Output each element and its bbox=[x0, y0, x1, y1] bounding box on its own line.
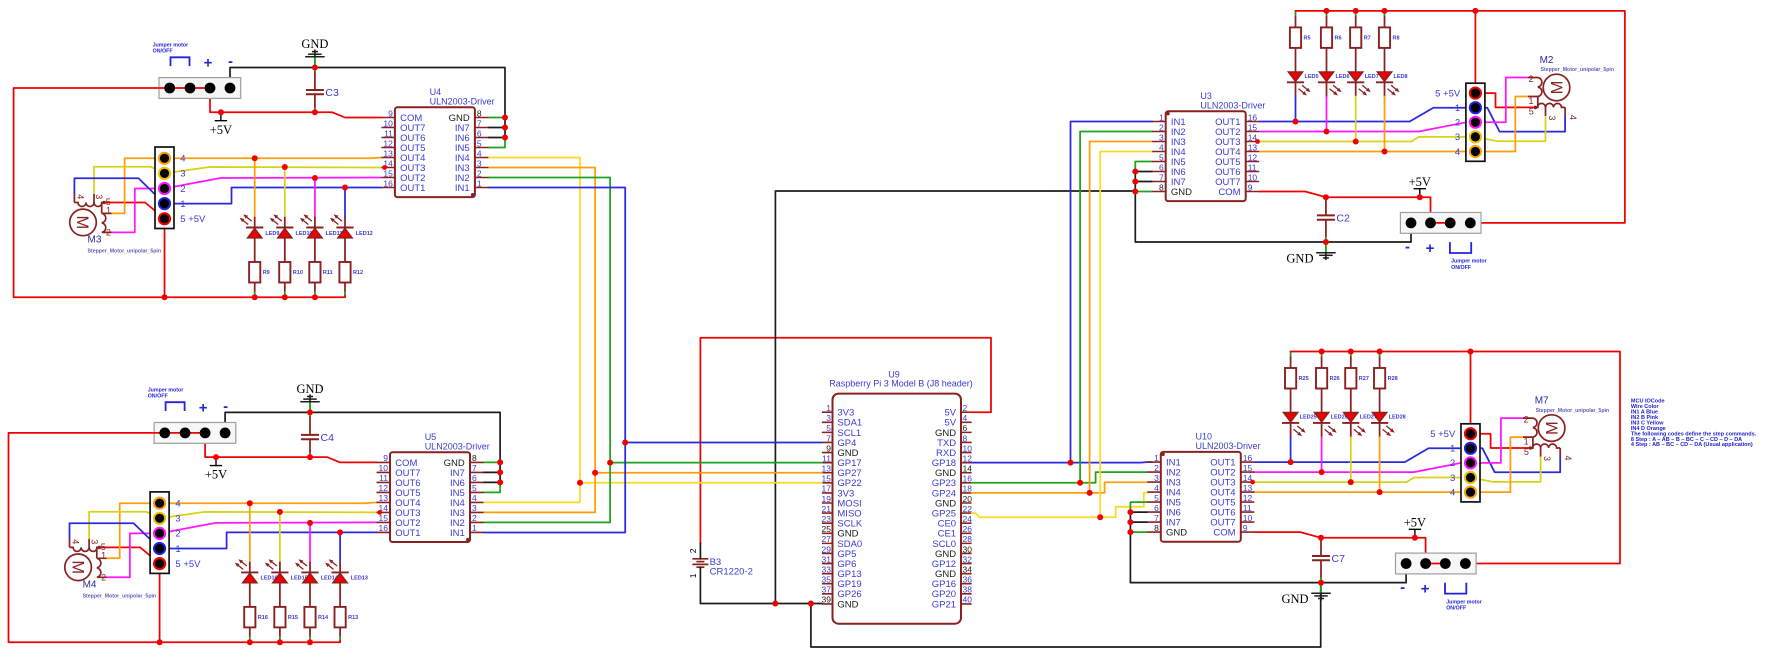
wire IN5-IN6-IN7-GND tie (green/black stubs) bbox=[1130, 502, 1147, 532]
svg-text:ULN2003-Driver: ULN2003-Driver bbox=[1200, 101, 1265, 111]
wire LED column LED12 bbox=[344, 188, 346, 298]
svg-text:LED9: LED9 bbox=[265, 231, 279, 237]
svg-text:3: 3 bbox=[1547, 115, 1557, 120]
svg-text:5 +5V: 5 +5V bbox=[1435, 88, 1461, 99]
wire battery leads (black) bbox=[700, 543, 822, 603]
wire GND jumper line (black) bbox=[230, 68, 505, 138]
svg-text:C3: C3 bbox=[325, 87, 339, 99]
jumper symbol + label bbox=[1450, 242, 1487, 271]
svg-text:ULN2003-Driver: ULN2003-Driver bbox=[425, 441, 490, 451]
resistor R25 bbox=[1285, 368, 1309, 389]
LED LED13 bbox=[325, 559, 368, 583]
svg-text:4: 4 bbox=[175, 499, 180, 510]
svg-text:5: 5 bbox=[101, 542, 106, 552]
svg-text:ON/OFF: ON/OFF bbox=[148, 394, 169, 400]
resistor R27 bbox=[1345, 368, 1369, 389]
svg-text:C7: C7 bbox=[1332, 553, 1346, 565]
wire net IN4 right (yellow) RPi.GP25-U10.IN4-U3.IN4 bbox=[972, 152, 1153, 521]
svg-text:37: 37 bbox=[822, 585, 832, 595]
wire LED column LED11 bbox=[314, 178, 316, 297]
svg-text:M: M bbox=[68, 560, 86, 574]
svg-text:+5V: +5V bbox=[210, 123, 232, 137]
svg-text:3: 3 bbox=[180, 169, 185, 180]
resistor R8 bbox=[1379, 27, 1400, 48]
svg-text:13: 13 bbox=[822, 464, 832, 474]
svg-text:24: 24 bbox=[963, 514, 973, 524]
svg-text:M4: M4 bbox=[83, 579, 97, 590]
wire motor phase A (blue) bbox=[74, 178, 381, 203]
svg-text:35: 35 bbox=[822, 575, 832, 585]
plus minus labels bbox=[1400, 579, 1430, 598]
svg-text:+: + bbox=[1426, 240, 1435, 257]
svg-text:8: 8 bbox=[472, 453, 477, 463]
jumper symbol + label bbox=[148, 387, 185, 411]
svg-text:M2: M2 bbox=[1540, 55, 1554, 66]
svg-text:10: 10 bbox=[1248, 172, 1258, 182]
LED LED6 bbox=[1318, 72, 1350, 96]
jumper symbol + label bbox=[153, 43, 190, 67]
svg-text:7: 7 bbox=[1154, 513, 1159, 523]
LED LED14 bbox=[295, 559, 339, 583]
svg-text:9: 9 bbox=[383, 453, 388, 463]
resistor R9 bbox=[249, 262, 270, 283]
svg-text:3: 3 bbox=[472, 503, 477, 513]
GND label bbox=[0, 0, 1, 1]
resistor R7 bbox=[1350, 27, 1371, 48]
svg-text:12: 12 bbox=[1243, 493, 1253, 503]
stepper motor M4 bbox=[65, 539, 156, 600]
GND label bbox=[0, 0, 1, 1]
wire motor phase C (yellow) bbox=[1259, 116, 1545, 142]
svg-text:-: - bbox=[223, 398, 228, 415]
svg-text:GP21: GP21 bbox=[932, 599, 956, 610]
4-pin jumper header bbox=[1396, 553, 1477, 574]
svg-text:4 Step : AB – BC – CD – DA (Us: 4 Step : AB – BC – CD – DA (Usual applic… bbox=[1631, 442, 1753, 448]
IC U5 ULN2003-Driver body bbox=[377, 432, 490, 542]
LED LED26 bbox=[1313, 413, 1348, 437]
svg-text:1: 1 bbox=[688, 573, 698, 578]
svg-text:13: 13 bbox=[1248, 142, 1258, 152]
wire +5V rail (red) bbox=[1296, 11, 1625, 223]
svg-text:R14: R14 bbox=[318, 615, 329, 621]
wire net IN3 left (orange) U4.IN3-U5.IN3-RPi.GP27 bbox=[483, 168, 822, 513]
svg-text:6: 6 bbox=[477, 128, 482, 138]
svg-text:3: 3 bbox=[94, 194, 104, 199]
svg-text:8: 8 bbox=[963, 433, 968, 443]
svg-text:9: 9 bbox=[1248, 182, 1253, 192]
svg-text:1: 1 bbox=[472, 523, 477, 533]
svg-text:C4: C4 bbox=[321, 432, 335, 444]
svg-text:LED28: LED28 bbox=[1389, 415, 1406, 421]
svg-text:2: 2 bbox=[106, 227, 111, 237]
LED LED28 bbox=[1371, 413, 1406, 437]
svg-text:U3: U3 bbox=[1200, 91, 1212, 101]
svg-text:M: M bbox=[73, 216, 91, 230]
svg-text:3: 3 bbox=[175, 514, 180, 525]
svg-text:4: 4 bbox=[1563, 456, 1573, 461]
svg-text:+: + bbox=[204, 55, 213, 72]
capacitor C3 bbox=[306, 87, 339, 99]
svg-text:Stepper_Motor_unipolar_5pin: Stepper_Motor_unipolar_5pin bbox=[88, 249, 162, 255]
wire LED column LED25 bbox=[1290, 352, 1292, 463]
svg-text:4: 4 bbox=[71, 539, 81, 544]
svg-text:4: 4 bbox=[1450, 487, 1455, 498]
svg-text:7: 7 bbox=[1159, 172, 1164, 182]
svg-text:LED25: LED25 bbox=[1300, 415, 1317, 421]
svg-text:GND: GND bbox=[1282, 592, 1309, 606]
svg-text:16: 16 bbox=[383, 178, 393, 188]
svg-text:12: 12 bbox=[379, 483, 389, 493]
resistor R26 bbox=[1316, 368, 1340, 389]
svg-text:12: 12 bbox=[963, 453, 973, 463]
svg-text:LED8: LED8 bbox=[1394, 74, 1408, 80]
ground symbol bbox=[1286, 242, 1335, 266]
wire LED column LED9 bbox=[254, 158, 256, 297]
svg-text:R26: R26 bbox=[1330, 376, 1340, 382]
wire motor phase D (orange) bbox=[1254, 437, 1523, 492]
svg-text:ON/OFF: ON/OFF bbox=[1451, 265, 1472, 271]
svg-text:5 +5V: 5 +5V bbox=[175, 559, 201, 570]
LED LED16 bbox=[235, 559, 278, 583]
svg-text:R11: R11 bbox=[323, 270, 333, 276]
svg-text:+5V: +5V bbox=[205, 468, 227, 482]
svg-text:1: 1 bbox=[826, 403, 831, 413]
5-pin motor connector bbox=[1435, 83, 1485, 161]
wire +5V loop and rail (red) bbox=[9, 433, 377, 642]
svg-text:9: 9 bbox=[388, 108, 393, 118]
wire GND run (black) bbox=[1135, 172, 1411, 243]
LED LED10 bbox=[270, 214, 313, 238]
battery B3 CR1220-2 bbox=[688, 548, 753, 578]
svg-text:7: 7 bbox=[477, 118, 482, 128]
IC U9 Raspberry Pi 3 Model B (J8 header) bbox=[822, 370, 973, 624]
svg-text:ULN2003-Driver: ULN2003-Driver bbox=[430, 97, 495, 107]
svg-text:M: M bbox=[1543, 421, 1561, 435]
svg-text:38: 38 bbox=[963, 585, 973, 595]
svg-text:2: 2 bbox=[688, 548, 698, 553]
svg-text:R13: R13 bbox=[348, 615, 358, 621]
svg-text:1: 1 bbox=[1528, 96, 1533, 106]
wire motor phase A (blue) bbox=[1259, 108, 1565, 132]
svg-text:R8: R8 bbox=[1393, 35, 1400, 41]
svg-text:21: 21 bbox=[822, 504, 832, 514]
svg-text:IN1: IN1 bbox=[455, 183, 470, 194]
svg-text:11: 11 bbox=[1248, 162, 1257, 172]
wire +5V loop and rail (red) bbox=[14, 88, 382, 297]
wire LED column LED27 bbox=[1350, 352, 1352, 483]
svg-text:29: 29 bbox=[822, 544, 832, 554]
svg-text:15: 15 bbox=[1243, 463, 1253, 473]
svg-text:4: 4 bbox=[1455, 147, 1460, 158]
wire battery+ to RPi 5V pin2 (red) bbox=[700, 338, 991, 543]
svg-text:GND: GND bbox=[301, 37, 328, 51]
plus minus labels bbox=[199, 398, 228, 417]
svg-text:6: 6 bbox=[1159, 162, 1164, 172]
svg-text:5: 5 bbox=[472, 483, 477, 493]
+5V symbol bbox=[1404, 516, 1426, 538]
svg-text:LED7: LED7 bbox=[1365, 74, 1379, 80]
svg-text:6: 6 bbox=[1154, 503, 1159, 513]
svg-text:4: 4 bbox=[1568, 115, 1578, 120]
svg-text:10: 10 bbox=[383, 118, 393, 128]
LED LED5 bbox=[1287, 72, 1319, 96]
wire LED column LED8 bbox=[1384, 11, 1386, 152]
wire motor phase B (magenta) bbox=[1259, 78, 1528, 132]
svg-text:COM: COM bbox=[1218, 187, 1240, 198]
svg-text:R28: R28 bbox=[1388, 376, 1398, 382]
svg-text:M7: M7 bbox=[1535, 396, 1549, 407]
ground symbol bbox=[296, 382, 323, 413]
svg-text:LED6: LED6 bbox=[1336, 74, 1350, 80]
svg-text:15: 15 bbox=[822, 474, 832, 484]
svg-text:-: - bbox=[228, 53, 233, 70]
+5V symbol bbox=[210, 112, 232, 137]
svg-text:IN1: IN1 bbox=[450, 528, 465, 539]
svg-text:3: 3 bbox=[1159, 132, 1164, 142]
svg-text:5: 5 bbox=[1159, 152, 1164, 162]
svg-text:8: 8 bbox=[1159, 182, 1164, 192]
plus minus labels bbox=[204, 53, 233, 72]
resistor R12 bbox=[339, 262, 363, 283]
wire GND run (black) bbox=[1130, 512, 1406, 583]
IC U3 ULN2003-Driver body bbox=[1152, 91, 1265, 201]
svg-text:3: 3 bbox=[1450, 473, 1455, 484]
wire LED column LED14 bbox=[309, 523, 311, 642]
svg-text:OUT1: OUT1 bbox=[400, 183, 425, 194]
junction dots bbox=[162, 65, 509, 301]
5-pin motor connector bbox=[155, 147, 206, 229]
svg-text:5: 5 bbox=[1154, 493, 1159, 503]
capacitor C4 bbox=[301, 432, 334, 444]
svg-text:13: 13 bbox=[383, 148, 393, 158]
svg-text:6: 6 bbox=[963, 423, 968, 433]
svg-text:R25: R25 bbox=[1299, 376, 1309, 382]
svg-text:5: 5 bbox=[477, 138, 482, 148]
svg-text:22: 22 bbox=[963, 504, 973, 514]
LED LED12 bbox=[330, 214, 373, 238]
svg-text:1: 1 bbox=[1450, 444, 1455, 455]
wire motor phase B (magenta) bbox=[1254, 418, 1523, 472]
+5V symbol bbox=[1409, 175, 1431, 197]
wire COM to +5V (red) bbox=[1254, 434, 1530, 564]
wire GND jumper line (black) bbox=[225, 412, 500, 482]
svg-text:Jumper motor: Jumper motor bbox=[1451, 259, 1487, 265]
resistor R13 bbox=[335, 607, 359, 628]
svg-text:2: 2 bbox=[963, 403, 968, 413]
svg-text:GND: GND bbox=[296, 382, 323, 396]
svg-text:5: 5 bbox=[1529, 107, 1534, 117]
svg-text:2: 2 bbox=[180, 184, 185, 195]
svg-text:9: 9 bbox=[826, 443, 831, 453]
resistor R10 bbox=[279, 262, 303, 283]
resistor R28 bbox=[1374, 368, 1398, 389]
capacitor C7 bbox=[1312, 553, 1345, 565]
svg-text:M3: M3 bbox=[88, 234, 102, 245]
wire motor phase C (yellow) bbox=[89, 512, 376, 539]
svg-text:R12: R12 bbox=[353, 270, 363, 276]
annotation note (blue text) bbox=[1631, 399, 1757, 449]
svg-text:8: 8 bbox=[477, 108, 482, 118]
resistor R11 bbox=[309, 262, 332, 283]
wire motor phase A (blue) bbox=[1254, 448, 1560, 472]
svg-text:+: + bbox=[1421, 581, 1430, 598]
wire net IN2 left (green) U4.IN2-U5.IN2-RPi.GP17 bbox=[483, 178, 822, 523]
svg-text:ON/OFF: ON/OFF bbox=[153, 49, 174, 55]
svg-text:COM: COM bbox=[1213, 528, 1235, 539]
svg-text:ULN2003-Driver: ULN2003-Driver bbox=[1196, 441, 1261, 451]
svg-text:2: 2 bbox=[1450, 458, 1455, 469]
jumper symbol + label bbox=[1445, 583, 1482, 612]
svg-text:4: 4 bbox=[76, 194, 86, 199]
svg-text:4: 4 bbox=[1154, 483, 1159, 493]
svg-text:31: 31 bbox=[822, 554, 832, 564]
wire IN5-IN6-IN7-GND tie (green/black stubs) bbox=[488, 118, 505, 148]
svg-text:GND: GND bbox=[1286, 252, 1313, 266]
svg-text:6: 6 bbox=[472, 473, 477, 483]
svg-text:11: 11 bbox=[379, 473, 388, 483]
capacitor C3 leads bbox=[314, 68, 316, 113]
resistor R14 bbox=[304, 607, 329, 628]
IC U10 ULN2003-Driver body bbox=[1147, 432, 1260, 542]
svg-text:12: 12 bbox=[383, 138, 393, 148]
svg-text:10: 10 bbox=[963, 443, 973, 453]
wire net IN1 left (blue) U4.IN1-U5.IN1-RPi.GP4 bbox=[483, 188, 822, 533]
svg-text:R10: R10 bbox=[293, 270, 303, 276]
wire motor phase B (magenta) bbox=[112, 178, 382, 233]
LED LED27 bbox=[1342, 413, 1377, 437]
wire motor phase D (orange) bbox=[107, 502, 377, 558]
wire main GND vertical to U3 (black) bbox=[772, 191, 1135, 607]
svg-text:2: 2 bbox=[472, 513, 477, 523]
wire LED column LED15 bbox=[279, 512, 281, 642]
svg-text:Jumper motor: Jumper motor bbox=[1446, 599, 1482, 605]
wire net IN3 right (orange) RPi.GP24-U10.IN3-U3.IN3 bbox=[972, 142, 1153, 496]
wire net IN1 right (blue) RPi.GP18-U10.IN1-U3.IN1 bbox=[972, 122, 1153, 466]
svg-text:2: 2 bbox=[1159, 122, 1164, 132]
svg-text:1: 1 bbox=[106, 206, 111, 216]
wire IN5-IN6-IN7-GND tie (green/black stubs) bbox=[484, 462, 501, 492]
svg-text:11: 11 bbox=[822, 453, 831, 463]
svg-text:3: 3 bbox=[1455, 132, 1460, 143]
wire bottom GND run RPi39 to C7 (black) bbox=[808, 583, 1321, 647]
LED LED9 bbox=[240, 214, 280, 238]
svg-text:4: 4 bbox=[963, 413, 968, 423]
svg-text:2: 2 bbox=[477, 168, 482, 178]
svg-text:32: 32 bbox=[963, 554, 973, 564]
junction dots bbox=[157, 409, 504, 645]
wire LED column LED13 bbox=[339, 532, 341, 642]
LED LED11 bbox=[300, 214, 343, 238]
svg-text:R9: R9 bbox=[263, 270, 270, 276]
svg-text:4: 4 bbox=[180, 154, 185, 165]
svg-text:33: 33 bbox=[822, 564, 832, 574]
svg-text:U10: U10 bbox=[1196, 432, 1213, 442]
stepper motor M2 bbox=[1528, 55, 1614, 120]
svg-text:14: 14 bbox=[963, 464, 973, 474]
4-pin jumper header bbox=[154, 423, 236, 444]
wire net IN4 left (yellow) U4.IN4-U5.IN4-RPi.GP22 bbox=[483, 158, 822, 503]
svg-text:27: 27 bbox=[822, 534, 832, 544]
resistor R16 bbox=[244, 607, 268, 628]
svg-text:25: 25 bbox=[822, 524, 832, 534]
svg-text:Jumper motor: Jumper motor bbox=[153, 43, 189, 49]
svg-text:7: 7 bbox=[472, 463, 477, 473]
IC U4 ULN2003-Driver body bbox=[381, 87, 494, 197]
svg-text:1: 1 bbox=[175, 544, 180, 555]
svg-text:U5: U5 bbox=[425, 432, 437, 442]
svg-text:+: + bbox=[199, 399, 208, 416]
capacitor C2 leads bbox=[1325, 197, 1327, 242]
svg-text:20: 20 bbox=[963, 494, 973, 504]
svg-text:26: 26 bbox=[963, 524, 973, 534]
svg-text:R27: R27 bbox=[1359, 376, 1369, 382]
svg-text:C2: C2 bbox=[1336, 212, 1350, 224]
svg-text:28: 28 bbox=[963, 534, 973, 544]
LED LED25 bbox=[1282, 413, 1317, 437]
stepper motor M3 bbox=[70, 194, 161, 255]
svg-text:23: 23 bbox=[822, 514, 832, 524]
svg-text:OUT1: OUT1 bbox=[395, 528, 420, 539]
LED LED8 bbox=[1376, 72, 1408, 96]
5-pin motor connector bbox=[150, 492, 201, 574]
wire motor phase B (magenta) bbox=[107, 522, 377, 577]
resistor R15 bbox=[274, 607, 298, 628]
svg-text:1: 1 bbox=[1154, 453, 1159, 463]
4-pin jumper header bbox=[159, 78, 241, 99]
svg-text:R15: R15 bbox=[288, 615, 298, 621]
svg-text:LED13: LED13 bbox=[351, 576, 368, 582]
5-pin motor connector bbox=[1430, 424, 1480, 502]
svg-text:39: 39 bbox=[822, 595, 832, 605]
svg-text:15: 15 bbox=[1248, 122, 1258, 132]
svg-text:13: 13 bbox=[379, 493, 389, 503]
svg-text:1: 1 bbox=[101, 551, 106, 561]
+5V symbol bbox=[205, 457, 227, 482]
svg-text:Stepper_Motor_unipolar_5pin: Stepper_Motor_unipolar_5pin bbox=[1536, 408, 1610, 414]
wire LED column LED7 bbox=[1355, 11, 1357, 142]
wire +5V rail (red) bbox=[1291, 352, 1620, 564]
svg-text:3: 3 bbox=[1154, 473, 1159, 483]
svg-text:16: 16 bbox=[1243, 453, 1253, 463]
svg-text:U4: U4 bbox=[430, 87, 442, 97]
4-pin jumper header bbox=[1400, 213, 1481, 234]
svg-text:16: 16 bbox=[379, 523, 389, 533]
svg-text:10: 10 bbox=[1243, 513, 1253, 523]
svg-text:GND: GND bbox=[837, 599, 858, 610]
wire LED column LED26 bbox=[1321, 352, 1323, 473]
wire motor phase D (orange) bbox=[1259, 97, 1528, 152]
wire motor phase D (orange) bbox=[112, 158, 382, 214]
svg-text:+5V: +5V bbox=[1404, 516, 1426, 530]
svg-text:11: 11 bbox=[384, 128, 393, 138]
svg-text:R6: R6 bbox=[1335, 35, 1342, 41]
wire LED column LED28 bbox=[1379, 352, 1381, 493]
wire motor phase C (yellow) bbox=[1254, 457, 1540, 483]
svg-text:5: 5 bbox=[1524, 447, 1529, 457]
svg-text:8: 8 bbox=[1154, 523, 1159, 533]
capacitor C7 leads bbox=[1320, 538, 1322, 583]
svg-text:1: 1 bbox=[1524, 437, 1529, 447]
svg-text:GND: GND bbox=[1166, 528, 1187, 539]
wire LED column LED5 bbox=[1295, 11, 1297, 122]
svg-text:36: 36 bbox=[963, 575, 973, 585]
junction dots bbox=[1127, 349, 1473, 586]
svg-text:4: 4 bbox=[477, 148, 482, 158]
svg-text:5 +5V: 5 +5V bbox=[1430, 429, 1456, 440]
ground symbol bbox=[301, 37, 328, 68]
wire motor phase A (blue) bbox=[70, 523, 377, 548]
svg-text:2: 2 bbox=[1455, 118, 1460, 129]
